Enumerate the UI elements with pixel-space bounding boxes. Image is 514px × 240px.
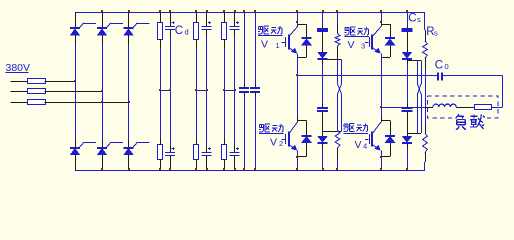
label Cd (175, 25, 189, 37)
wire B left column upper (417, 61, 419, 85)
wire stub from V3 snubber junction (407, 60, 421, 62)
wire mid link pair 3 (224, 90, 235, 92)
wire emitter V1 down (297, 53, 299, 57)
wire bottom snubber cap-diode link x=322.5 (322, 111, 324, 136)
wire bottom snubber x=322.5 (322, 104, 324, 108)
capacitor Cf2 (250, 88, 260, 92)
underline of drive label V2 (259, 133, 284, 135)
resistor R2 (top) (194, 23, 199, 40)
wire RA1 down (337, 46, 339, 58)
thyristor at x=102,y=28 (97, 23, 123, 35)
wire Cd2' mid to cap (206, 90, 208, 152)
wire diode V1 bottom lead (306, 45, 308, 57)
wire bottom snubber x=407 (407, 104, 409, 108)
junction film2 bottom bus (254, 168, 256, 170)
wire rectifier leg 3 middle (128, 35, 130, 147)
wire inductor to resistor (456, 107, 474, 109)
freewheel diode at x=390,y=135.5 (385, 136, 395, 143)
snubber capacitor at x=407,y=108.5 (402, 108, 413, 111)
svg-text:V: V (261, 38, 268, 50)
junction x=160 top bus (159, 10, 161, 12)
junction x=224 top bus (223, 10, 225, 12)
resistor R1 (top) (158, 23, 163, 40)
svg-text:s: s (417, 15, 421, 24)
junction top bus leg V3 (380, 10, 382, 12)
wire bottom DC bus (75, 155, 77, 170)
label C0 (435, 59, 449, 71)
junction emitter node V4 (380, 156, 382, 158)
junction link1 right (169, 89, 171, 91)
junction link1 left (159, 89, 161, 91)
thyristor at x=75,y=28 (70, 23, 96, 35)
snubber capacitor at x=322.5,y=28.9 (317, 29, 328, 31)
IGBT gate lead into x=381 (365, 139, 368, 141)
IGBT collector lead x=297.5 (290, 27, 298, 36)
IGBT emitter lead with arrow x=297.5 (290, 145, 297, 150)
junction link2 right (206, 89, 208, 91)
junction x=170 bottom bus (169, 168, 171, 170)
IGBT emitter lead with arrow x=381 (373, 145, 380, 150)
thyristor at x=102,y=147.5 (97, 143, 123, 155)
underline of drive label V1 (258, 35, 283, 37)
resistor Rs (top zigzag) (423, 41, 428, 58)
wire output B (381, 107, 425, 109)
thyristor at x=75,y=147.5 (70, 143, 96, 155)
wire R1 to mid link (160, 39, 162, 90)
wire leg V2 from midpoint (297, 75, 299, 116)
junction snubber x=322.5 bottom bus (322, 168, 324, 170)
snubber capacitor at x=407,y=28.9 (402, 29, 413, 31)
wire Rs down to output B (425, 58, 427, 68)
wire Rs column from top bus corner (425, 30, 427, 41)
junction leg3 top bus (128, 10, 130, 12)
junction x=234.5 bottom bus (234, 168, 236, 170)
wire snubber cap-diode link x=407 (407, 32, 409, 52)
wire collector T to diode V4 (381, 120, 390, 122)
wire Cd1 to mid link (170, 30, 172, 36)
wire snubber diode x=322.5 down (322, 59, 324, 64)
wire thyristor-top-lead x=75 (75, 12, 77, 28)
drive block label (qudong) for V2 (259, 124, 283, 132)
wire Cd2 to mid link (206, 30, 208, 36)
wire thyristor-top-lead x=128.5 (128, 140, 130, 148)
junction RA bottom bus (336, 168, 338, 170)
wire X crossover B second diagonal (418, 84, 422, 94)
wire bottom snubber diode x=322.5 to bus (322, 143, 324, 149)
wire B right column upper (421, 61, 423, 85)
wire collector T to diode V2 (298, 120, 307, 122)
wire A right column upper (341, 60, 343, 84)
snubber diode at x=407,y=52 (402, 52, 412, 59)
svg-text:0: 0 (445, 62, 449, 71)
capacitor Cd1' (bottom electrolytic) (165, 147, 175, 155)
fuse FU1 (28, 79, 46, 84)
load dashed box (427, 96, 497, 118)
junction output B (380, 106, 382, 108)
wire Cd3 to mid link (234, 30, 236, 36)
wire Cd3' bottom lead (234, 156, 236, 170)
wire A left column lower (337, 94, 339, 130)
junction phase1-leg1 (74, 80, 76, 82)
wire X crossover B first diagonal (418, 84, 422, 94)
junction bottom bus leg V2 (296, 168, 298, 170)
wire snubber column x=407 from top bus (407, 12, 409, 26)
capacitor Cf1 (239, 88, 249, 92)
wire bleeder R1 top lead (160, 12, 162, 22)
label V2 (270, 136, 283, 148)
svg-text:s: s (434, 29, 438, 38)
wire Cd1' mid to cap (170, 90, 172, 152)
capacitor C0 (438, 72, 442, 80)
wire emitter V2 down to bus (297, 150, 299, 170)
wire B right column lower (421, 94, 423, 133)
svg-text:V: V (355, 139, 362, 151)
svg-text:C: C (408, 12, 416, 24)
wire X crossover A second diagonal (338, 84, 342, 94)
resistor Rs' (bottom zigzag) (423, 133, 428, 153)
junction collector V3 (380, 21, 382, 23)
wire cap C1 top lead (170, 12, 172, 26)
capacitor Cd1 (top electrolytic) (165, 21, 175, 29)
wire X crossover A first diagonal (338, 84, 342, 94)
wire snubber column x=322.5 from top bus (322, 12, 324, 26)
IGBT collector lead x=381 (373, 27, 381, 36)
wire phase 2 to bridge (45, 91, 103, 93)
capacitor Cd2 (top electrolytic) (202, 21, 212, 29)
wire leg V1 collector stub (297, 12, 299, 27)
wire cap C2 top lead (206, 12, 208, 26)
junction snubber x=322.5 top bus (322, 10, 324, 12)
junction leg2 bottom bus (101, 168, 103, 170)
resistor R2' (bottom) (194, 145, 199, 160)
wire R3' bottom lead (224, 160, 226, 171)
resistor R3 (top) (222, 23, 227, 40)
svg-text:C: C (435, 59, 443, 71)
junction x=224 bottom bus (223, 168, 225, 170)
inductor load L (433, 104, 456, 107)
junction x=206.5 bottom bus (206, 168, 208, 170)
junction emitter node V2 (296, 156, 298, 158)
wire Cd2' bottom lead (206, 156, 208, 170)
fuse FU2 (28, 89, 46, 94)
junction output A (296, 74, 298, 76)
wire output A to C0 (298, 75, 438, 77)
junction snubber x=407 top bus (406, 10, 408, 12)
junction phase3-leg3 (128, 101, 130, 103)
wire Cd1' bottom lead (170, 156, 172, 170)
snubber diode at x=407,y=136 (402, 136, 412, 143)
wire phase 1 left lead (11, 81, 28, 83)
svg-text:4: 4 (363, 141, 367, 150)
wire snubber resistor column A from top bus (337, 12, 339, 24)
wire film cap C2 bottom lead (255, 92, 257, 95)
IGBT body bar x=297.5 (288, 34, 290, 49)
junction film1 top bus (243, 10, 245, 12)
svg-text:3: 3 (361, 42, 365, 51)
resistor snubber RA2 (zigzag) (335, 130, 340, 148)
wire R2' bottom lead (196, 160, 198, 171)
label V3 (348, 39, 366, 51)
junction bottom bus leg V4 (380, 168, 382, 170)
wire bleeder R2 top lead (196, 12, 198, 22)
wire diode V2 bottom lead (306, 143, 308, 157)
wire top DC bus (75, 12, 77, 28)
wire bottom snubber diode x=407 to bus (407, 143, 409, 149)
resistor R3' (bottom) (222, 145, 227, 160)
underline of drive label V4 (344, 133, 369, 135)
drive block label (qudong) for V3 (345, 27, 369, 35)
junction x=196 top bus (195, 10, 197, 12)
fuse FU3 (28, 100, 46, 105)
wire R3 to mid link (224, 39, 226, 90)
junction RA top bus (336, 10, 338, 12)
wire Rs' from output B (425, 107, 427, 124)
wire R1' bottom lead (160, 160, 162, 171)
junction phase2-leg2 (101, 90, 103, 92)
wire emitter V4 down to bus (381, 150, 383, 170)
svg-text:1: 1 (276, 41, 280, 50)
resistor snubber RA1 (zigzag) (335, 34, 340, 47)
snubber capacitor at x=322.5,y=108.5 (317, 108, 328, 111)
wire bleeder R1' mid to rect (160, 90, 162, 145)
IGBT gate lead into x=297.5 (282, 42, 285, 44)
wire thyristor-top-lead x=75 (75, 140, 77, 148)
resistor load R (475, 105, 492, 110)
wire leg B emitter to midpoint (381, 57, 383, 107)
wire output node A (297, 57, 299, 75)
snubber diode at x=322.5,y=136 (318, 136, 328, 143)
wire rectifier leg 2 middle (102, 35, 104, 147)
junction top bus leg V1 (296, 10, 298, 12)
wire stub to V2 snubber junction (323, 131, 342, 133)
snubber diode at x=322.5,y=52 (318, 52, 328, 59)
wire mid link pair 1 (160, 90, 170, 92)
junction link3 right (234, 89, 236, 91)
underline of drive label V3 (345, 36, 370, 38)
IGBT collector lead x=297.5 (290, 122, 298, 133)
label Rs (426, 26, 438, 38)
wire rectifier leg 3 bottom (128, 155, 130, 170)
wire bleeder R2' mid to rect (196, 90, 198, 145)
junction x=160 bottom bus (159, 168, 161, 170)
wire film cap C1 top lead (244, 12, 246, 84)
junction leg2 top bus (101, 10, 103, 12)
junction link3 left (223, 89, 225, 91)
junction collector V1 (296, 21, 298, 23)
junction snubber x=407 bottom bus (406, 168, 408, 170)
load label (fuzai) (455, 114, 484, 129)
drive block label (qudong) for V4 (344, 124, 368, 132)
wire rectifier leg 2 bottom (102, 155, 104, 170)
IGBT emitter lead with arrow x=381 (373, 48, 380, 53)
wire diode V3 bottom lead (390, 45, 392, 57)
capacitor Cd3' (bottom electrolytic) (230, 147, 240, 155)
IGBT gate bar x=297.5 (285, 134, 287, 144)
wire snubber cap-diode link x=322.5 (322, 32, 324, 52)
junction link2 left (195, 89, 197, 91)
label Cs (408, 12, 421, 24)
wire leg V4 from midpoint (381, 107, 383, 117)
wire Cd3' mid to cap (234, 90, 236, 152)
wire A right column lower (341, 94, 343, 131)
wire phase 1 to bridge (45, 81, 76, 83)
freewheel diode at x=390,y=38 (385, 38, 395, 45)
capacitor Cd2' (bottom electrolytic) (202, 147, 212, 155)
wire emitter V3 down (381, 53, 383, 57)
wire R2 to mid link (196, 39, 198, 90)
junction film1 bottom bus (243, 168, 245, 170)
wire stub to V4 snubber junction (407, 133, 421, 135)
label V1 (261, 38, 280, 50)
freewheel diode at x=306.5,y=135.5 (302, 136, 312, 143)
wire bleeder R3' mid to rect (224, 90, 226, 145)
junction x=196 bottom bus (195, 168, 197, 170)
wire mid link pair 2 (196, 90, 207, 92)
capacitor Cd3 (top electrolytic) (230, 21, 240, 29)
IGBT gate bar x=381 (369, 134, 371, 144)
svg-text:2: 2 (279, 139, 283, 148)
wire phase 3 to bridge (45, 102, 129, 104)
IGBT body bar x=297.5 (288, 131, 290, 146)
resistor R1' (bottom) (158, 145, 163, 160)
IGBT gate bar x=297.5 (285, 37, 287, 47)
wire Rs' to bottom bus corner (425, 153, 427, 163)
junction film2 top bus (254, 10, 256, 12)
IGBT body bar x=381 (371, 131, 373, 146)
svg-text:V: V (348, 39, 355, 51)
wire stub from V1 snubber junction (328, 59, 342, 61)
junction leg3 bottom bus (128, 168, 130, 170)
IGBT gate lead into x=297.5 (282, 139, 285, 141)
junction phase3 crossing (101, 101, 103, 103)
label V4 (355, 139, 368, 151)
wire RA2 to bottom bus (337, 148, 339, 159)
IGBT body bar x=381 (371, 34, 373, 49)
wire cap C3 top lead (234, 12, 236, 26)
freewheel diode at x=306.5,y=38 (302, 38, 312, 45)
wire rectifier leg 1 bottom (75, 155, 77, 170)
wire phase 3 left lead (11, 102, 28, 104)
IGBT gate lead into x=381 (365, 42, 368, 44)
wire thyristor-top-lead x=102 (102, 12, 104, 28)
wire collector T to diode V1 (298, 24, 307, 26)
wire phase 2 left lead (11, 91, 28, 93)
net label 380V (6, 62, 31, 74)
wire film cap C2 top lead (255, 12, 257, 84)
svg-text:V: V (270, 136, 277, 148)
IGBT collector lead x=381 (373, 122, 381, 133)
wire collector T to diode V3 (381, 24, 390, 26)
svg-text:d: d (185, 28, 189, 37)
svg-text:C: C (175, 25, 183, 37)
drive block label (qudong) for V1 (258, 26, 282, 34)
wire bottom snubber cap-diode link x=407 (407, 111, 409, 136)
junction x=170 top bus (169, 10, 171, 12)
wire film cap C1 bottom lead (244, 92, 246, 95)
wire bleeder R3 top lead (224, 12, 226, 22)
thyristor at x=128.5,y=28 (124, 23, 150, 35)
wire leg V3 collector stub (381, 12, 383, 27)
thyristor at x=128.5,y=147.5 (124, 143, 150, 155)
IGBT gate bar x=381 (369, 37, 371, 47)
junction x=206.5 top bus (206, 10, 208, 12)
wire diode V4 bottom lead (390, 143, 392, 157)
IGBT emitter lead with arrow x=297.5 (290, 48, 297, 53)
wire snubber diode x=407 down (407, 59, 409, 64)
wire thyristor-top-lead x=128.5 (128, 12, 130, 28)
wire thyristor-top-lead x=102 (102, 140, 104, 148)
wire B left column lower (417, 94, 419, 133)
junction x=234.5 top bus (234, 10, 236, 12)
wire output B to load left (425, 107, 433, 109)
wire rectifier leg 1 middle (75, 35, 77, 147)
wire C0 to load right (443, 75, 503, 77)
